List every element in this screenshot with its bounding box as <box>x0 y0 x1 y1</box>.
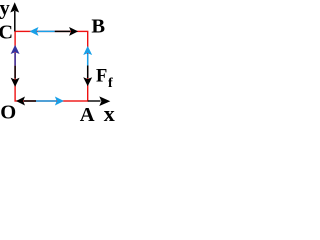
svg-text:O: O <box>0 102 16 124</box>
svg-text:B: B <box>91 16 105 38</box>
svg-text:F: F <box>96 67 107 87</box>
svg-text:f: f <box>108 76 113 91</box>
svg-text:A: A <box>80 104 95 126</box>
svg-text:y: y <box>0 0 11 19</box>
svg-text:C: C <box>0 22 13 44</box>
svg-text:x: x <box>104 101 115 126</box>
